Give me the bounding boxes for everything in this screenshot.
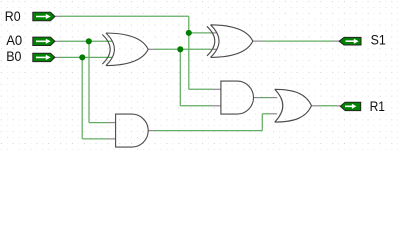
wire AND2 output to OR top input xyxy=(254,97,278,99)
xor gate XOR1 (A0 xor B0) xyxy=(102,33,148,66)
wire B0 to AND1 bottom input xyxy=(82,138,115,140)
input pin A0 xyxy=(33,37,55,45)
input pin R0 xyxy=(33,12,55,20)
wire R0 to XOR2 top input xyxy=(189,32,217,34)
wire R0 to AND2 top input xyxy=(189,88,221,90)
wire AND1 output vertical up xyxy=(261,114,263,131)
wire R0 vertical xyxy=(188,16,190,89)
wire A0 vertical branch xyxy=(88,41,90,122)
svg-text:A0: A0 xyxy=(6,33,22,48)
output pin S1 xyxy=(339,37,361,45)
svg-text:R0: R0 xyxy=(5,9,21,24)
svg-text:B0: B0 xyxy=(6,49,21,64)
node A0 junction xyxy=(86,38,92,44)
wire R0 horizontal xyxy=(55,15,189,17)
node B0 junction xyxy=(79,54,85,60)
wire XOR1 branch to AND2 bottom input xyxy=(180,105,221,107)
wire A0 horizontal xyxy=(55,40,112,42)
wire XOR1 output branch vertical xyxy=(179,49,181,106)
wire A0 to AND1 top input xyxy=(89,122,116,124)
svg-text:S1: S1 xyxy=(371,33,386,48)
input pin B0 xyxy=(33,53,55,61)
wire B0 vertical branch xyxy=(81,57,83,138)
wire AND1 to OR bottom input xyxy=(262,113,277,115)
and gate AND1 (A0 and B0) xyxy=(116,114,149,147)
wire OR output to R1 xyxy=(312,105,341,107)
wire XOR2 output to S1 xyxy=(253,40,339,42)
xor gate XOR2 (R0 xor (A0 xor B0)) xyxy=(207,25,253,58)
output pin R1 xyxy=(340,102,360,110)
wire B0 horizontal xyxy=(55,56,112,58)
wire XOR1 output to XOR2 bottom input xyxy=(148,48,217,50)
svg-text:R1: R1 xyxy=(370,99,385,114)
node R0/XOR2 junction xyxy=(186,30,192,36)
or gate OR1 (carry out) xyxy=(275,89,312,122)
wire AND1 output horizontal xyxy=(148,130,262,132)
and gate AND2 (R0 and xor1) xyxy=(221,81,254,114)
node XOR1 output junction xyxy=(177,46,183,52)
